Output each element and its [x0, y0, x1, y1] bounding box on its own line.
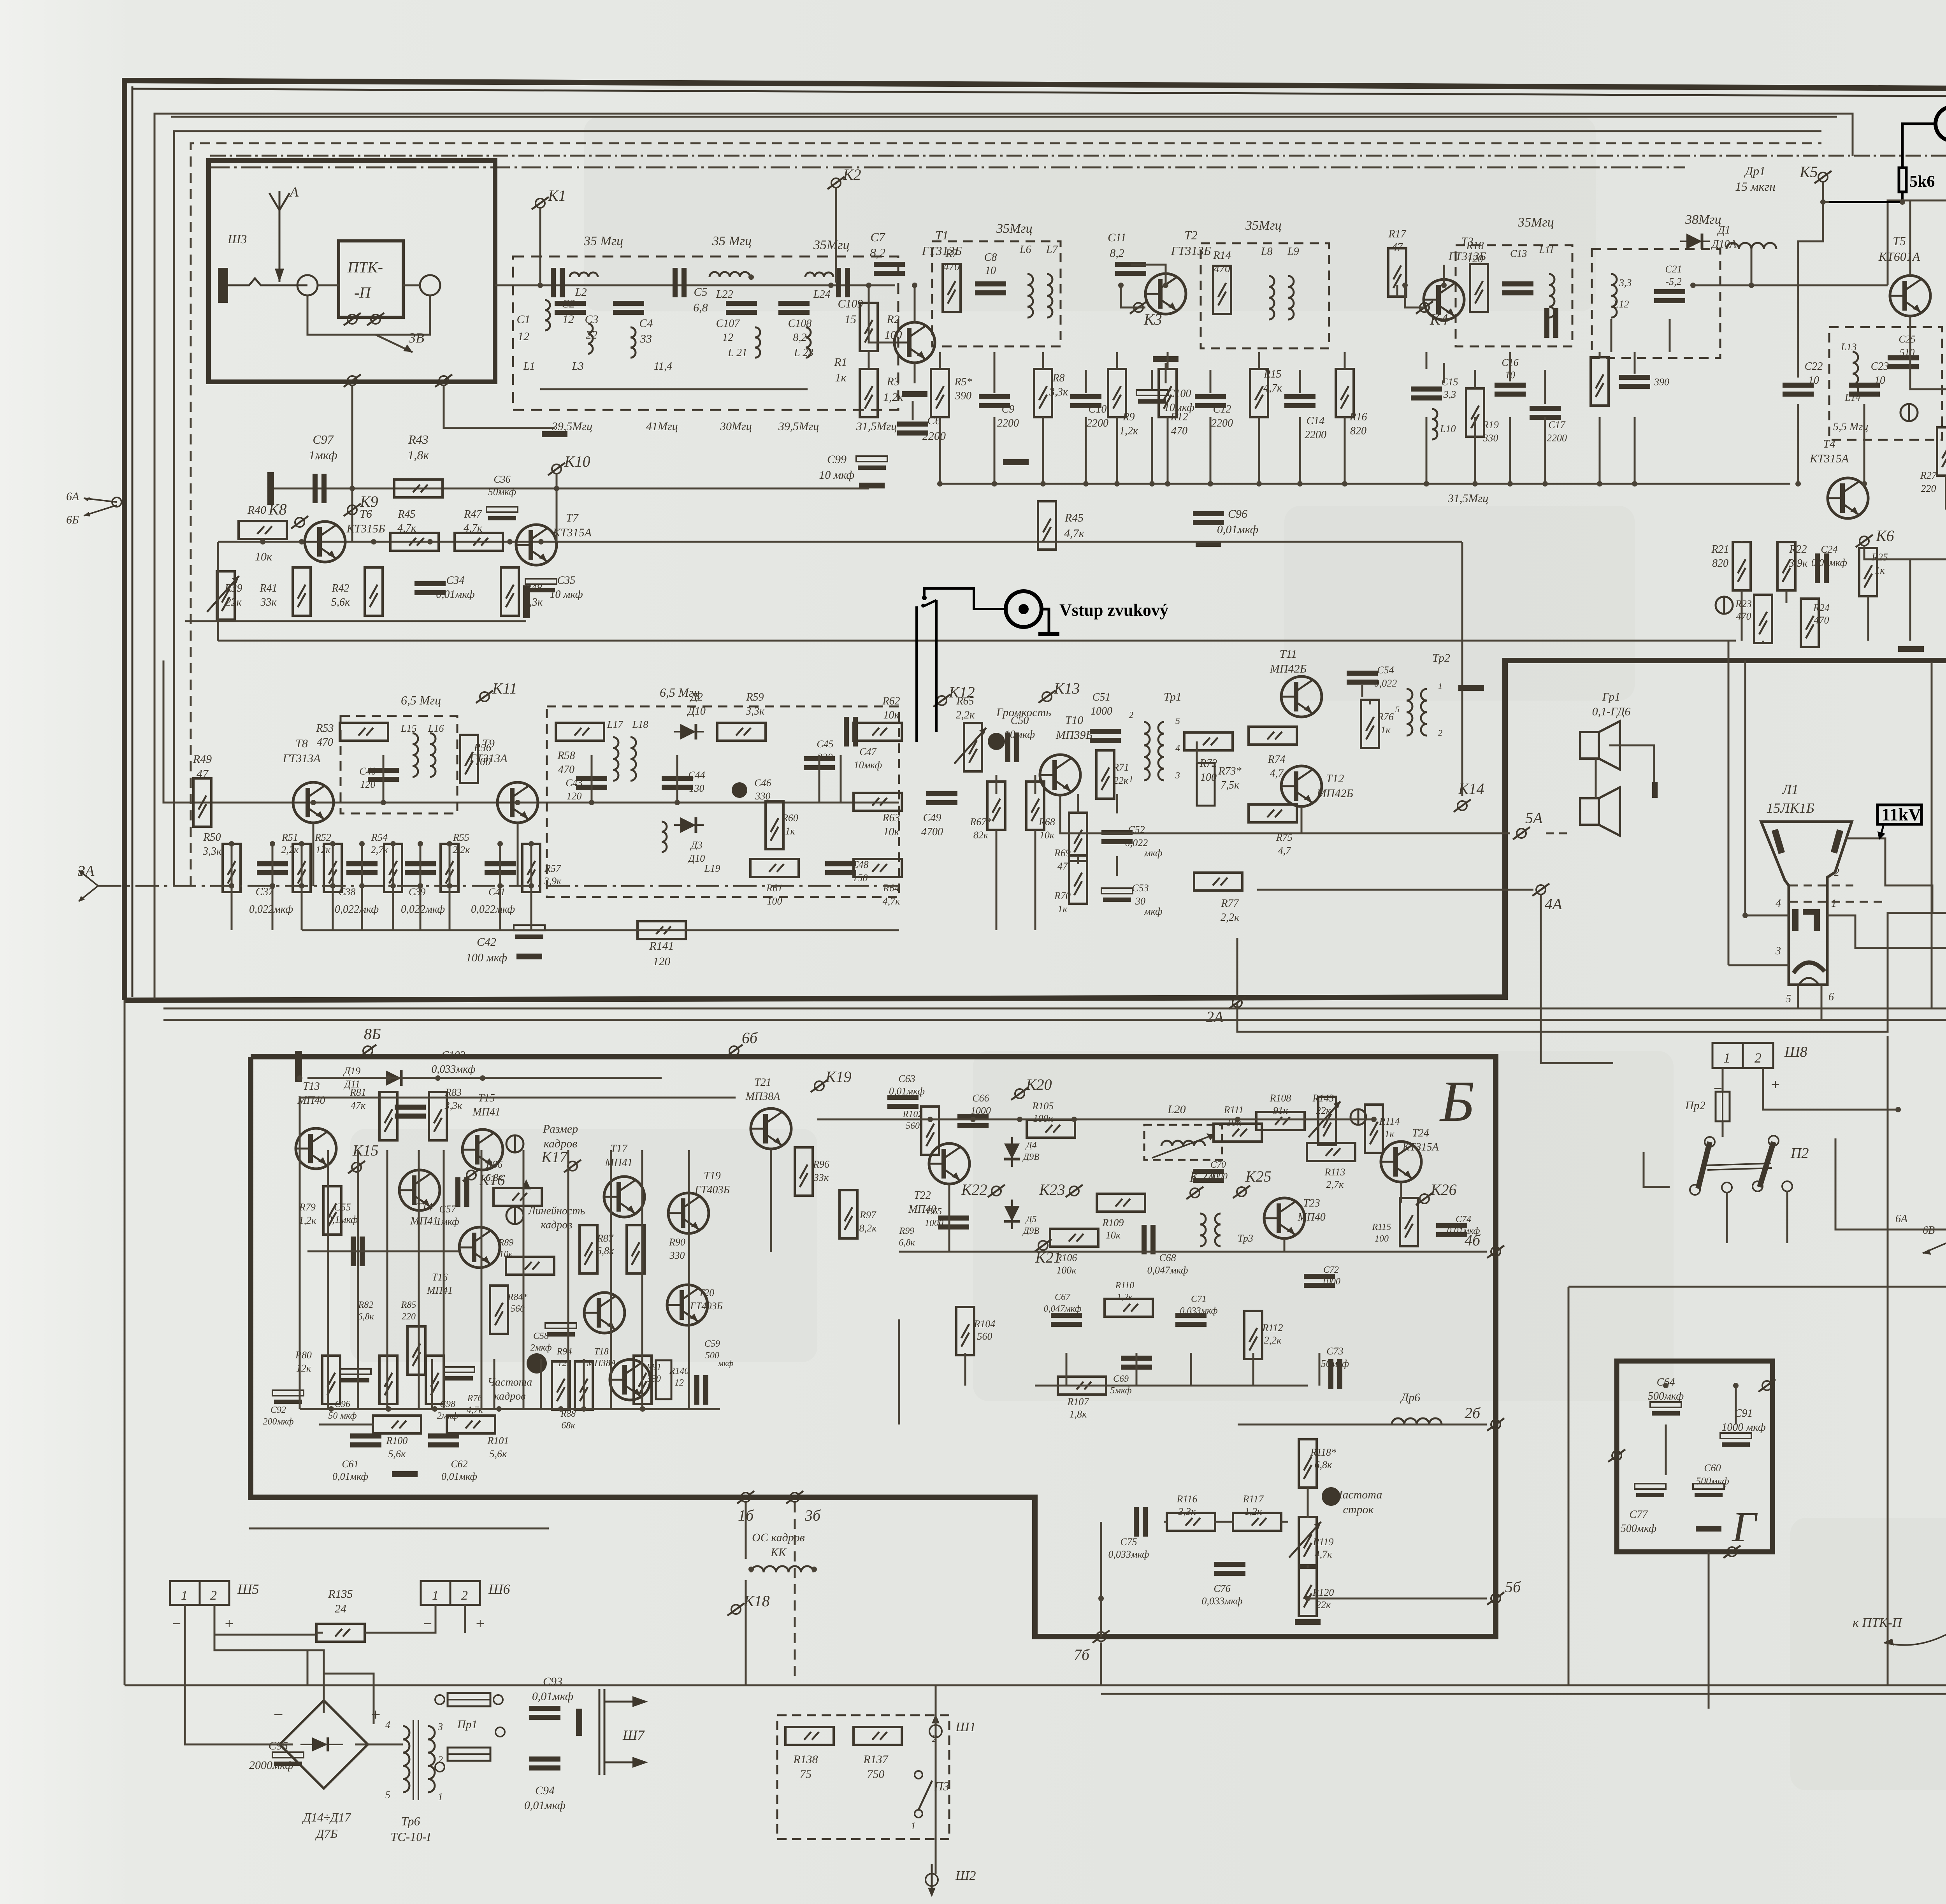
svg-text:С77: С77: [1630, 1509, 1648, 1521]
svg-text:5б: 5б: [1505, 1578, 1521, 1596]
svg-text:R138: R138: [793, 1753, 818, 1766]
cap C24: [1815, 553, 1829, 583]
svg-text:R135: R135: [328, 1588, 353, 1600]
AGC bottom bus: [218, 640, 1736, 642]
cap C35: [525, 579, 557, 592]
deflection plate left: [1775, 830, 1782, 853]
svg-text:2,7к: 2,7к: [1326, 1179, 1344, 1190]
svg-text:Ш8: Ш8: [1784, 1044, 1807, 1060]
svg-text:R77: R77: [1221, 898, 1239, 910]
svg-text:2: 2: [1129, 710, 1133, 720]
cap C22: [1783, 383, 1814, 397]
transistor T7: [516, 525, 557, 565]
resistor R23 R24: [1754, 595, 1772, 643]
resistor R138: [785, 1727, 834, 1745]
cap C67: [1051, 1313, 1082, 1327]
resistor R17: [1388, 248, 1406, 297]
transistor T18: [610, 1359, 650, 1400]
svg-text:Т12: Т12: [1326, 772, 1344, 785]
resistor R108: [1256, 1112, 1305, 1130]
cap C63: [887, 1095, 919, 1109]
terminal K11: [476, 690, 493, 703]
svg-text:470: 470: [1814, 615, 1829, 626]
svg-text:33: 33: [640, 332, 652, 345]
svg-text:Ш5: Ш5: [237, 1581, 259, 1597]
svg-text:КТ601А: КТ601А: [1878, 249, 1920, 263]
svg-text:R17: R17: [1388, 228, 1406, 240]
knob r143: [1351, 1109, 1366, 1125]
terminal K9: [344, 504, 361, 516]
coil L24: [805, 272, 833, 277]
svg-text:47: 47: [1057, 861, 1068, 872]
svg-text:С95: С95: [269, 1739, 288, 1752]
svg-text:820: 820: [1712, 557, 1728, 569]
wire 5b: [1308, 1598, 1487, 1600]
transistor T15: [462, 1129, 503, 1170]
resistor R73: [1197, 763, 1215, 806]
svg-text:1мкф: 1мкф: [309, 448, 337, 462]
svg-text:0,022: 0,022: [1125, 837, 1148, 848]
svg-text:R141: R141: [649, 940, 674, 952]
svg-text:К11: К11: [492, 680, 517, 697]
svg-text:L22: L22: [716, 288, 733, 300]
svg-text:С1: С1: [516, 313, 530, 326]
gnd T2: [1153, 356, 1178, 362]
svg-text:1000: 1000: [925, 1218, 943, 1228]
svg-text:22: 22: [586, 328, 597, 341]
resistor R53: [340, 723, 388, 741]
resistor R84: [490, 1286, 508, 1334]
svg-text:R94: R94: [557, 1347, 572, 1357]
svg-text:R67*: R67*: [970, 816, 992, 827]
cap C64: [1650, 1402, 1681, 1416]
svg-text:5: 5: [1786, 993, 1791, 1005]
svg-text:С102: С102: [442, 1049, 465, 1061]
resistor R109: [1097, 1194, 1145, 1212]
svg-text:R76: R76: [467, 1393, 483, 1403]
svg-text:Т4: Т4: [1823, 437, 1835, 450]
svg-text:Т20: Т20: [699, 1287, 714, 1298]
svg-text:5: 5: [1395, 704, 1400, 714]
svg-text:мкф: мкф: [1144, 906, 1163, 917]
svg-text:R40: R40: [247, 504, 266, 516]
gnd A: [1898, 646, 1924, 652]
coils L17 L18: [613, 737, 618, 781]
svg-text:МП38А: МП38А: [745, 1091, 781, 1103]
svg-text:R74: R74: [1267, 754, 1285, 766]
svg-text:-П: -П: [354, 284, 371, 301]
transistor T10: [1040, 755, 1080, 795]
svg-text:4,7к: 4,7к: [464, 522, 483, 534]
svg-text:1: 1: [1831, 898, 1837, 910]
sound dashed box 2: [547, 706, 899, 897]
svg-text:С39: С39: [409, 886, 425, 898]
double border inner line top: [132, 89, 1946, 97]
svg-text:R100: R100: [386, 1435, 408, 1446]
cap C49: [926, 791, 957, 805]
cap C108: [778, 301, 810, 315]
svg-text:С96: С96: [335, 1399, 350, 1409]
svg-text:560: 560: [977, 1331, 992, 1342]
pot R39: [217, 571, 235, 620]
audio out to speaker vertical: [1541, 895, 1613, 1063]
coil L11: [1549, 274, 1554, 318]
svg-text:С53: С53: [1132, 882, 1149, 894]
svg-text:1,2к: 1,2к: [1245, 1506, 1263, 1517]
resistor R135: [316, 1624, 365, 1642]
svg-text:R63: R63: [882, 812, 900, 824]
long bottom wires: [125, 1684, 1946, 1686]
svg-text:R58: R58: [557, 750, 575, 762]
cap C14: [1284, 394, 1315, 408]
svg-text:0,01мкф: 0,01мкф: [332, 1471, 368, 1482]
resistor R89: [506, 1257, 554, 1275]
svg-text:R81: R81: [350, 1087, 366, 1098]
resistor R59: [717, 723, 766, 741]
11kV box: [1878, 805, 1921, 824]
svg-text:12: 12: [674, 1378, 684, 1388]
yoke dashed lines: [1790, 885, 1853, 887]
top bus line 6 dashdot: [210, 167, 1685, 169]
resistor R43: [394, 480, 443, 497]
svg-text:К14: К14: [1458, 780, 1484, 797]
cap C6: [897, 422, 928, 436]
svg-text:К17: К17: [541, 1148, 568, 1166]
Vstup wiring left: [924, 588, 1006, 609]
knob C46: [732, 782, 747, 798]
svg-text:R101: R101: [487, 1435, 509, 1446]
node 5b: [1487, 1592, 1504, 1605]
resistor R16: [1336, 369, 1354, 417]
wire audio out: [1440, 833, 1510, 834]
terminal K26: [1416, 1193, 1433, 1205]
svg-text:С34: С34: [446, 574, 465, 587]
terminal K12: [933, 694, 950, 707]
svg-text:К13: К13: [1054, 680, 1080, 697]
svg-text:−: −: [1712, 1080, 1723, 1097]
gnd c93: [576, 1709, 582, 1736]
svg-text:35 Мгц: 35 Мгц: [583, 234, 623, 248]
svg-text:R23: R23: [1735, 598, 1752, 609]
svg-text:R71: R71: [1112, 762, 1129, 773]
svg-text:L17: L17: [607, 719, 623, 730]
svg-text:L11: L11: [1539, 244, 1554, 255]
svg-text:510: 510: [1900, 347, 1915, 358]
svg-text:R116: R116: [1177, 1493, 1198, 1505]
knob chastota kadrov: [527, 1353, 547, 1374]
svg-text:24: 24: [335, 1602, 346, 1615]
svg-text:Пр1: Пр1: [457, 1718, 478, 1731]
svg-text:33к: 33к: [813, 1172, 829, 1183]
IF collector feeds: [914, 285, 916, 322]
svg-text:500мкф: 500мкф: [1648, 1390, 1684, 1402]
svg-text:К20: К20: [1026, 1076, 1052, 1093]
Vstup ground stub: [1041, 609, 1049, 632]
svg-text:R84*: R84*: [508, 1292, 528, 1302]
resistor R76: [1361, 700, 1379, 748]
transistor T22: [929, 1143, 969, 1184]
svg-text:2200: 2200: [1211, 417, 1233, 429]
coil L13 L14: [1853, 352, 1858, 395]
fuse Pr2: [1716, 1092, 1730, 1121]
svg-text:41Мгц: 41Мгц: [646, 420, 678, 433]
transistor T20: [667, 1285, 708, 1325]
wire 7b line: [1100, 1642, 1102, 1685]
cap C52: [1101, 830, 1133, 844]
knob частота строк: [1322, 1487, 1340, 1506]
svg-text:560: 560: [906, 1121, 920, 1131]
cap C96: [1193, 511, 1224, 525]
svg-text:R14: R14: [1213, 249, 1231, 262]
svg-text:К26: К26: [1430, 1181, 1457, 1198]
svg-text:мкф: мкф: [1144, 847, 1163, 859]
svg-text:L18: L18: [632, 719, 648, 730]
svg-text:10к: 10к: [883, 826, 899, 838]
cap C77: [1635, 1484, 1666, 1497]
svg-text:С62: С62: [451, 1458, 467, 1470]
resistor R69: [1069, 813, 1087, 861]
cap C9: [979, 394, 1010, 408]
svg-text:R96: R96: [813, 1159, 829, 1170]
svg-text:120: 120: [1467, 253, 1483, 265]
svg-text:R16: R16: [1349, 411, 1367, 423]
heater arc: [1793, 963, 1825, 973]
cap C92: [272, 1390, 304, 1404]
cap C50: [1005, 732, 1019, 762]
svg-text:С40: С40: [359, 766, 376, 777]
terminal K23: [1066, 1185, 1083, 1197]
svg-text:С58: С58: [533, 1331, 549, 1341]
transformer Tr1: [1144, 722, 1150, 780]
svg-text:R102: R102: [903, 1109, 923, 1119]
svg-text:50мкф: 50мкф: [1321, 1358, 1349, 1369]
svg-text:С94: С94: [535, 1784, 555, 1797]
svg-text:Д1: Д1: [1717, 224, 1730, 236]
top bus B: [307, 1077, 662, 1079]
svg-text:С68: С68: [1159, 1252, 1176, 1263]
cap C59: [694, 1375, 708, 1405]
resistor R102: [921, 1107, 939, 1155]
svg-text:С97: С97: [313, 432, 334, 446]
svg-text:R111: R111: [1223, 1104, 1243, 1115]
svg-text:С69: С69: [1113, 1374, 1129, 1384]
svg-text:-5,2: -5,2: [1665, 276, 1681, 287]
svg-text:12к: 12к: [296, 1363, 311, 1374]
bottom bus verticals: [745, 1580, 747, 1685]
svg-text:R9: R9: [1122, 411, 1135, 423]
svg-text:К24: К24: [1189, 1168, 1215, 1186]
svg-text:С72: С72: [1323, 1265, 1339, 1275]
svg-text:L10: L10: [1440, 423, 1456, 434]
wire K9 down: [351, 386, 353, 542]
svg-text:КТ315А: КТ315А: [1809, 452, 1849, 465]
resistor R40: [239, 521, 287, 539]
resistor R85: [426, 1356, 444, 1404]
svg-text:6: 6: [1828, 991, 1834, 1003]
svg-text:1: 1: [1438, 681, 1442, 691]
P3 dashed box: [777, 1715, 949, 1839]
svg-text:35Мгц: 35Мгц: [1517, 215, 1554, 230]
diode D1: [1680, 234, 1710, 249]
svg-text:100: 100: [1375, 1234, 1389, 1244]
svg-text:200мкф: 200мкф: [263, 1417, 294, 1427]
svg-text:4700: 4700: [921, 826, 943, 838]
svg-text:R97: R97: [859, 1209, 876, 1221]
svg-text:С93: С93: [543, 1675, 562, 1688]
coil L19: [662, 822, 667, 852]
pin4 wire: [1745, 915, 1789, 917]
svg-text:38Мгц: 38Мгц: [1685, 213, 1721, 227]
svg-text:5,5 Мгц: 5,5 Мгц: [1833, 421, 1868, 433]
svg-text:Ш2: Ш2: [955, 1869, 976, 1883]
cap C5: [673, 268, 687, 297]
svg-text:R85: R85: [401, 1300, 416, 1310]
knob volume: [988, 733, 1005, 750]
svg-text:R106: R106: [1056, 1252, 1077, 1263]
svg-text:1,2к: 1,2к: [299, 1215, 317, 1226]
svg-text:3,3к: 3,3к: [1178, 1506, 1196, 1517]
svg-text:L15: L15: [400, 723, 416, 734]
svg-text:120: 120: [653, 955, 671, 968]
resistor R8: [1034, 369, 1052, 417]
svg-text:6А: 6А: [66, 490, 79, 503]
svg-text:10к: 10к: [499, 1249, 513, 1259]
svg-text:500мкф: 500мкф: [1621, 1523, 1656, 1535]
svg-text:С73: С73: [1326, 1345, 1343, 1357]
svg-text:3,3к: 3,3к: [202, 845, 222, 857]
svg-text:R140: R140: [669, 1366, 689, 1376]
svg-text:С45: С45: [817, 738, 833, 750]
svg-text:3: 3: [1775, 945, 1781, 957]
svg-text:R41: R41: [259, 582, 277, 594]
svg-text:С12: С12: [1213, 403, 1231, 415]
svg-text:Т11: Т11: [1280, 648, 1297, 660]
svg-text:2,2к: 2,2к: [1264, 1335, 1282, 1346]
cap C95: [272, 1752, 304, 1766]
cap C48: [825, 861, 856, 875]
svg-text:С59: С59: [704, 1339, 720, 1349]
svg-text:С24: С24: [1821, 544, 1837, 555]
svg-text:330: 330: [1483, 432, 1498, 444]
cap C58: [545, 1323, 576, 1337]
svg-text:0,022мкф: 0,022мкф: [471, 903, 515, 915]
svg-text:ГТ313А: ГТ313А: [282, 752, 321, 765]
resistor R56: [460, 735, 478, 783]
svg-text:30Мгц: 30Мгц: [720, 420, 752, 433]
svg-text:Ш6: Ш6: [488, 1581, 510, 1597]
svg-text:4,7к: 4,7к: [397, 522, 416, 534]
resistor R143: [1318, 1097, 1336, 1145]
frame line 2: [155, 114, 1853, 999]
resistor R114: [1365, 1105, 1383, 1153]
svg-text:0,033мкф: 0,033мкф: [1108, 1549, 1149, 1560]
svg-text:МП41: МП41: [472, 1106, 501, 1118]
terminal K8: [291, 516, 308, 529]
transistor T24: [1381, 1142, 1421, 1182]
svg-text:R104: R104: [974, 1318, 996, 1330]
vertical right of P2: [1835, 1138, 1946, 1230]
resistor R70: [1069, 855, 1087, 904]
svg-text:R109: R109: [1102, 1217, 1124, 1228]
resistor R115: [1400, 1198, 1418, 1246]
connector Sh5: [170, 1581, 200, 1605]
svg-text:Д2: Д2: [689, 691, 703, 703]
svg-text:ГТ313А: ГТ313А: [469, 752, 508, 765]
svg-text:1к: 1к: [1057, 903, 1068, 915]
svg-text:L12: L12: [1613, 299, 1629, 310]
resistor R107: [1058, 1377, 1106, 1395]
cap C34: [414, 581, 446, 595]
node 3A marker left: [79, 870, 98, 901]
svg-text:С3: С3: [585, 313, 598, 326]
pin3 wire: [1728, 964, 1789, 966]
svg-text:С99: С99: [827, 453, 847, 466]
svg-text:15 мкгн: 15 мкгн: [1735, 179, 1776, 193]
resistor R101: [447, 1416, 495, 1433]
svg-text:R72: R72: [1199, 757, 1217, 769]
svg-text:35Мгц: 35Мгц: [1245, 218, 1282, 233]
svg-text:мкф: мкф: [718, 1358, 734, 1368]
svg-text:1,2к: 1,2к: [1117, 1292, 1133, 1302]
resistor R9: [1108, 369, 1126, 417]
svg-text:R119: R119: [1313, 1536, 1334, 1547]
svg-text:ТС-10-I: ТС-10-I: [390, 1830, 431, 1844]
3A dash-dot line: [98, 885, 899, 887]
coil L8 L9: [1269, 276, 1274, 320]
svg-text:КТ315А: КТ315А: [1402, 1141, 1439, 1153]
cap C36: [486, 507, 518, 520]
svg-text:0,047мкф: 0,047мкф: [1044, 1304, 1082, 1314]
cap C25: [1888, 355, 1919, 369]
wires psu: [185, 1605, 293, 1744]
svg-text:С21: С21: [1665, 263, 1682, 275]
svg-text:R108: R108: [1270, 1093, 1291, 1104]
svg-text:50 мкф: 50 мкф: [328, 1411, 357, 1421]
12V feed line: [1568, 1286, 1946, 1288]
svg-text:Тр3: Тр3: [1238, 1233, 1253, 1244]
svg-text:С35: С35: [557, 574, 576, 587]
svg-text:R91: R91: [646, 1362, 662, 1372]
svg-text:+: +: [1770, 1076, 1781, 1093]
node slashes G: [1758, 1379, 1776, 1392]
svg-text:R61: R61: [766, 882, 783, 894]
svg-text:2: 2: [1755, 1050, 1762, 1066]
IF stage 1 dashed box: [932, 241, 1061, 346]
resistor R64: [854, 859, 902, 877]
IF stage vertical to gnd bus: [939, 417, 941, 484]
svg-text:6,5 Мгц: 6,5 Мгц: [401, 693, 441, 707]
svg-text:0,047мкф: 0,047мкф: [1147, 1265, 1188, 1276]
svg-text:С46: С46: [754, 777, 771, 789]
svg-text:R47: R47: [464, 508, 482, 520]
resistor R2: [860, 303, 878, 351]
resistor R86: [494, 1188, 542, 1206]
svg-text:1: 1: [911, 1820, 916, 1832]
transistor T1: [894, 322, 935, 363]
transistor T18b: [584, 1293, 625, 1333]
svg-text:С76: С76: [1214, 1583, 1230, 1594]
svg-text:R80: R80: [295, 1349, 312, 1361]
svg-text:+: +: [475, 1615, 485, 1632]
svg-text:С74: С74: [1456, 1214, 1471, 1224]
socket circle right: [420, 275, 440, 295]
svg-text:L16: L16: [428, 723, 444, 734]
terminal K13: [1038, 690, 1056, 703]
svg-text:R82: R82: [358, 1300, 374, 1310]
svg-text:К6: К6: [1876, 527, 1894, 545]
svg-text:1: 1: [432, 1588, 439, 1603]
filter L1 C1: [545, 300, 550, 330]
